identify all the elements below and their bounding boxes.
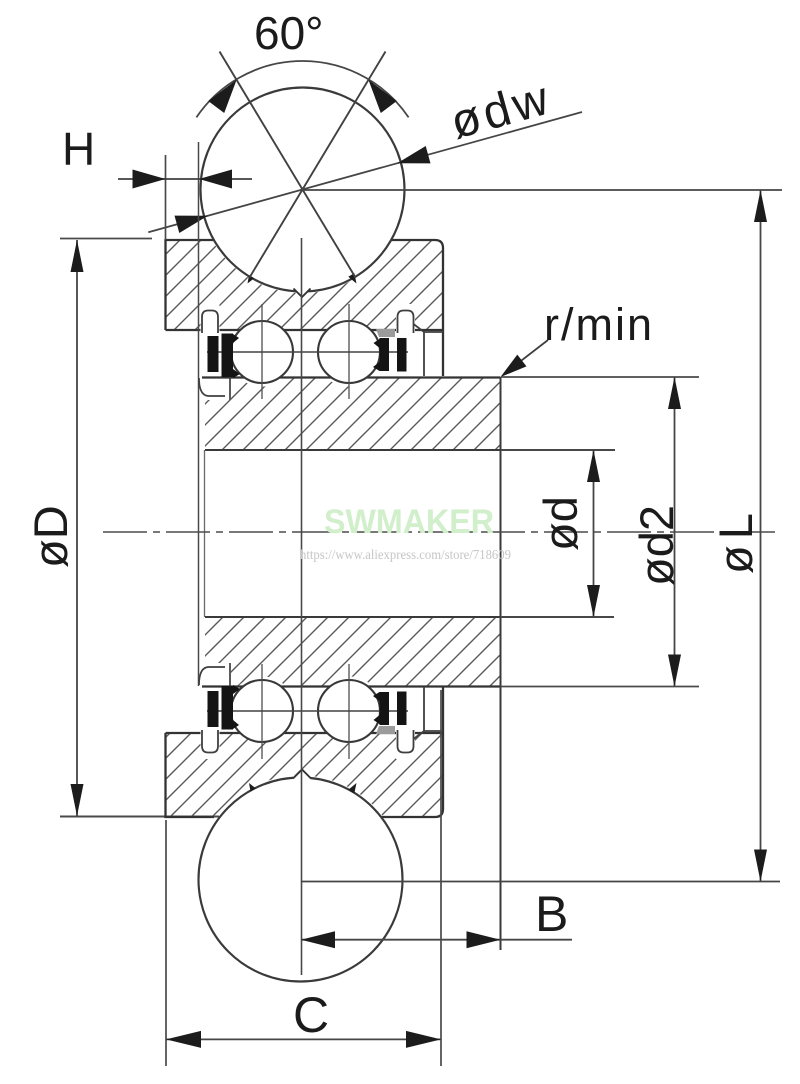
svg-text:H: H [62, 123, 95, 175]
ball row center line top [207, 351, 408, 353]
svg-text:B: B [535, 886, 568, 942]
H dimension arrowhead right [199, 170, 232, 189]
svg-text:ødw: ødw [445, 71, 558, 150]
seal top-left (black) [208, 336, 219, 372]
d2 bottom extension line [501, 686, 700, 688]
bore top line [205, 449, 615, 451]
L diameter dimension line [760, 190, 762, 882]
C dimension arrowhead right [406, 1031, 441, 1048]
H extension line (inner ring left face) [198, 142, 200, 686]
seal groove channel bottom-left [202, 730, 218, 753]
svg-text:øD: øD [24, 505, 77, 568]
D diameter top extension line [60, 238, 152, 240]
ball upper right [318, 321, 380, 383]
D diameter bottom extension line [60, 816, 219, 818]
r/min leader arrowhead [501, 355, 527, 377]
inner ring top face line [202, 376, 500, 378]
d2 top extension line [501, 376, 700, 378]
L dimension arrowhead bottom [754, 850, 767, 882]
outer ring bottom section hatching [160, 728, 450, 822]
groove contact tick left (bottom circle) [249, 783, 256, 791]
L dimension arrowhead top [754, 190, 767, 222]
outer ring bottom inner-bore line (cavity bottom) [166, 732, 444, 734]
d dimension arrowhead top [587, 450, 600, 482]
inner ring left seal notch top [199, 377, 230, 400]
horizontal centerline (axis) [103, 531, 775, 533]
groove contact tick left (top circle) [248, 275, 255, 283]
V-groove angle construction line (NE-SW) [250, 52, 386, 278]
D dimension arrowhead top [71, 240, 84, 272]
inner ring bottom face line [202, 685, 500, 687]
V-groove profile circle top (dw circle) [201, 88, 405, 292]
d2 dimension arrowhead bottom [668, 655, 681, 687]
ball center axis upper-left [261, 304, 263, 399]
inner ring top band hatching [205, 378, 500, 450]
H dimension line [118, 178, 252, 180]
seal bottom-right (black) [380, 692, 390, 725]
r/min leader line [504, 340, 548, 374]
d bore bottom extension line [501, 616, 615, 618]
C extension line right [440, 690, 442, 1066]
60-degree arc arrowhead left [208, 80, 236, 113]
V-groove profile circle bottom [199, 778, 403, 982]
B dimension line [301, 939, 572, 941]
d diameter dimension line [593, 450, 595, 617]
D dimension arrowhead bottom [71, 784, 84, 816]
inner ring right lip bottom [414, 687, 444, 739]
seal groove channel top-left [202, 311, 218, 334]
ball center axis upper-right [348, 304, 350, 399]
H dimension arrowhead left [133, 170, 166, 189]
seal bottom-left (black) [208, 691, 219, 727]
B dimension arrowhead left [301, 931, 335, 948]
outer ring top inner-bore line (cavity top) [166, 329, 444, 331]
seal groove channel top-right [398, 311, 414, 334]
groove bottom relief notch bottom circle [292, 770, 313, 782]
ball row center line bottom [207, 710, 408, 712]
dw diameter dimension line [148, 112, 582, 232]
ball lower right [318, 680, 380, 742]
60-degree dimension arc [196, 61, 408, 117]
svg-text:r/min: r/min [544, 299, 654, 350]
C dimension arrowhead left [166, 1031, 201, 1048]
svg-text:ød: ød [534, 496, 587, 551]
svg-text:øL: øL [709, 507, 762, 574]
outer ring top section hatching [160, 235, 450, 335]
svg-text:ød2: ød2 [630, 505, 683, 586]
d2 diameter dimension line [674, 377, 676, 687]
outer ring bottom section outline [166, 687, 444, 817]
bore bottom line [205, 616, 614, 618]
svg-text:https://www.aliexpress.com/sto: https://www.aliexpress.com/store/718609 [300, 548, 511, 563]
ball lower left [231, 680, 293, 742]
V-groove angle construction line (NW-SE) [220, 52, 356, 278]
inner ring right lip top [414, 324, 444, 376]
L top reference line [303, 189, 783, 191]
inner ring bore left edge [204, 450, 206, 617]
B dimension arrowhead right [467, 931, 501, 948]
C extension line left [165, 820, 167, 1066]
L bottom reference line [301, 881, 780, 883]
outer ring top section outline [166, 240, 444, 376]
inner ring left seal notch bottom [199, 663, 230, 686]
svg-text:60°: 60° [254, 7, 324, 59]
dw dimension arrowhead left [175, 216, 208, 233]
seal top-right (black) [380, 338, 390, 371]
H extension line (outer ring left face) [165, 155, 167, 240]
ball center axis lower-right [348, 664, 350, 759]
inner ring bottom band hatching [205, 617, 500, 687]
ball upper left [231, 321, 293, 383]
ball center axis lower-left [261, 664, 263, 759]
D diameter dimension line [76, 240, 78, 816]
d dimension arrowhead bottom [587, 585, 600, 617]
seal groove channel bottom-right [398, 730, 414, 753]
svg-text:SWMAKER: SWMAKER [324, 503, 494, 541]
60-degree arc arrowhead right [368, 80, 396, 113]
vertical centerline [301, 238, 303, 975]
d bore top extension line [501, 449, 616, 451]
svg-text:C: C [293, 987, 329, 1043]
d2 dimension arrowhead top [668, 377, 681, 409]
dw dimension arrowhead right [397, 146, 430, 163]
groove contact tick right (bottom circle) [348, 783, 356, 793]
C dimension line [166, 1038, 441, 1040]
groove contact tick right (top circle) [348, 273, 356, 283]
inner ring right face (flange) and B extension [500, 377, 502, 950]
groove bottom relief notch top [292, 285, 313, 297]
